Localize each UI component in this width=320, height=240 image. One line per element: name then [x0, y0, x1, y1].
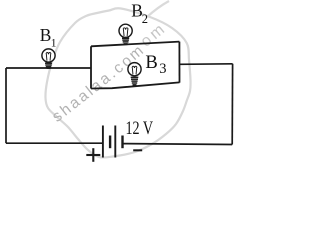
- wire: exit horizontal right: [180, 63, 233, 66]
- battery cell 2 short plate: [121, 136, 123, 149]
- battery + sign: [86, 148, 100, 162]
- wire: top horizontal to parallel block: [6, 67, 91, 69]
- svg-text:1: 1: [51, 38, 57, 50]
- svg-text:B: B: [40, 25, 52, 45]
- wire: left vertical: [5, 68, 7, 143]
- battery cell 1 long plate: [102, 126, 104, 158]
- bulb B1: [42, 49, 55, 68]
- wire: rectangle right edge: [178, 42, 180, 83]
- svg-text:B: B: [145, 52, 157, 73]
- wire: right vertical: [231, 64, 233, 145]
- watermark orbit ring top arc: [147, 1, 169, 17]
- battery cell 2 long plate: [114, 126, 116, 158]
- wire: rectangle top edge (B2 branch): [91, 42, 179, 47]
- svg-text:3: 3: [159, 61, 166, 77]
- watermark text shaalaa.com: [57, 20, 178, 123]
- bulb B3: [128, 63, 141, 85]
- bulb B2: [119, 24, 132, 44]
- wire: rectangle bottom edge (B3 branch): [91, 82, 180, 88]
- wire: rectangle left edge: [90, 46, 92, 88]
- battery cell 1 short plate: [109, 136, 111, 149]
- wire: bottom left to battery: [6, 142, 103, 144]
- svg-text:2: 2: [142, 12, 148, 26]
- watermark circle: [45, 8, 190, 157]
- battery - sign: [133, 149, 142, 151]
- svg-text:12 V: 12 V: [126, 119, 154, 139]
- wire: bottom right to battery: [123, 143, 233, 146]
